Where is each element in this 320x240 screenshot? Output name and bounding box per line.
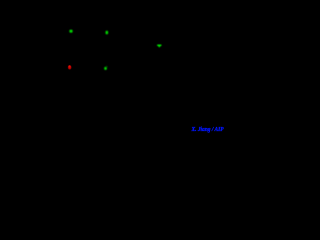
svg-text:X. Jiang / AIP: X. Jiang / AIP — [191, 127, 224, 133]
